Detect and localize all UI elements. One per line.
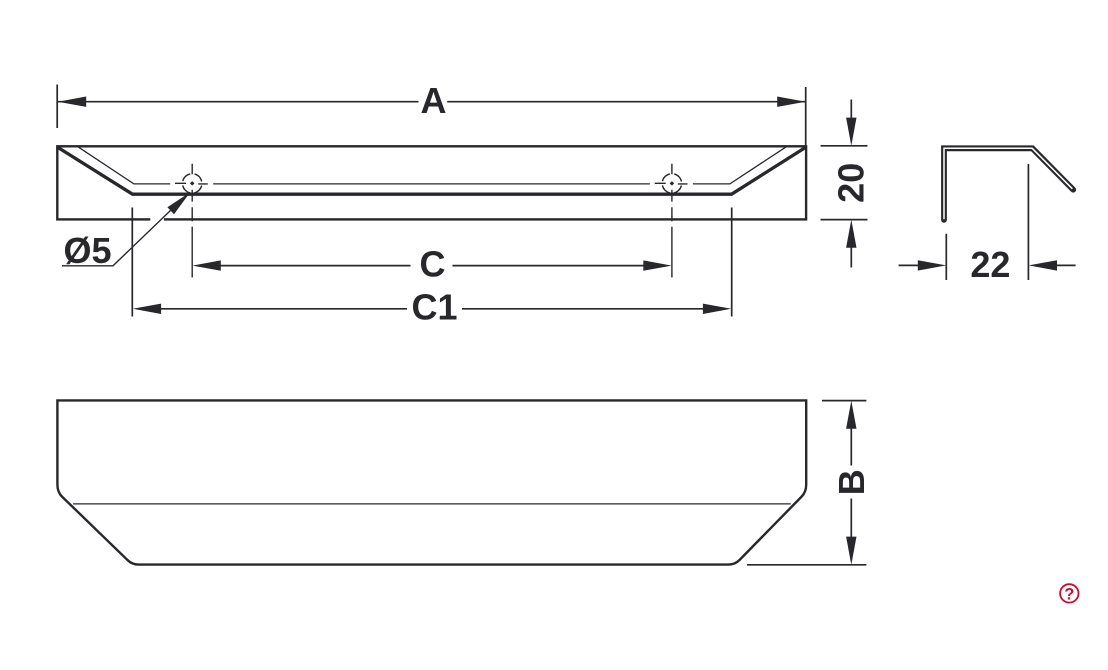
dimension B [747,401,872,565]
diameter 5 callout [62,192,190,271]
bottom view outline [57,400,806,564]
top view chamfer edge thin [78,147,786,184]
dimension C [192,244,671,285]
svg-text:22: 22 [970,244,1010,285]
dimension C1 [132,208,731,328]
dimension 20 [821,100,872,268]
dimension A [57,80,806,146]
top view handle outline [57,146,806,219]
svg-text:Ø5: Ø5 [63,230,111,271]
hole 1 centre mark [175,164,208,278]
top view chamfer edge thick [58,148,805,195]
svg-text:A: A [421,80,447,121]
bottom view edge line [73,503,791,505]
side profile section [944,148,1073,220]
svg-text:C: C [420,244,446,285]
svg-text:20: 20 [831,163,872,203]
svg-text:C1: C1 [411,287,457,328]
svg-text:B: B [831,469,872,495]
dimension 22 [899,164,1076,285]
hole 2 centre mark [655,164,688,278]
svg-text:?: ? [1064,585,1074,603]
help icon [1060,584,1078,603]
